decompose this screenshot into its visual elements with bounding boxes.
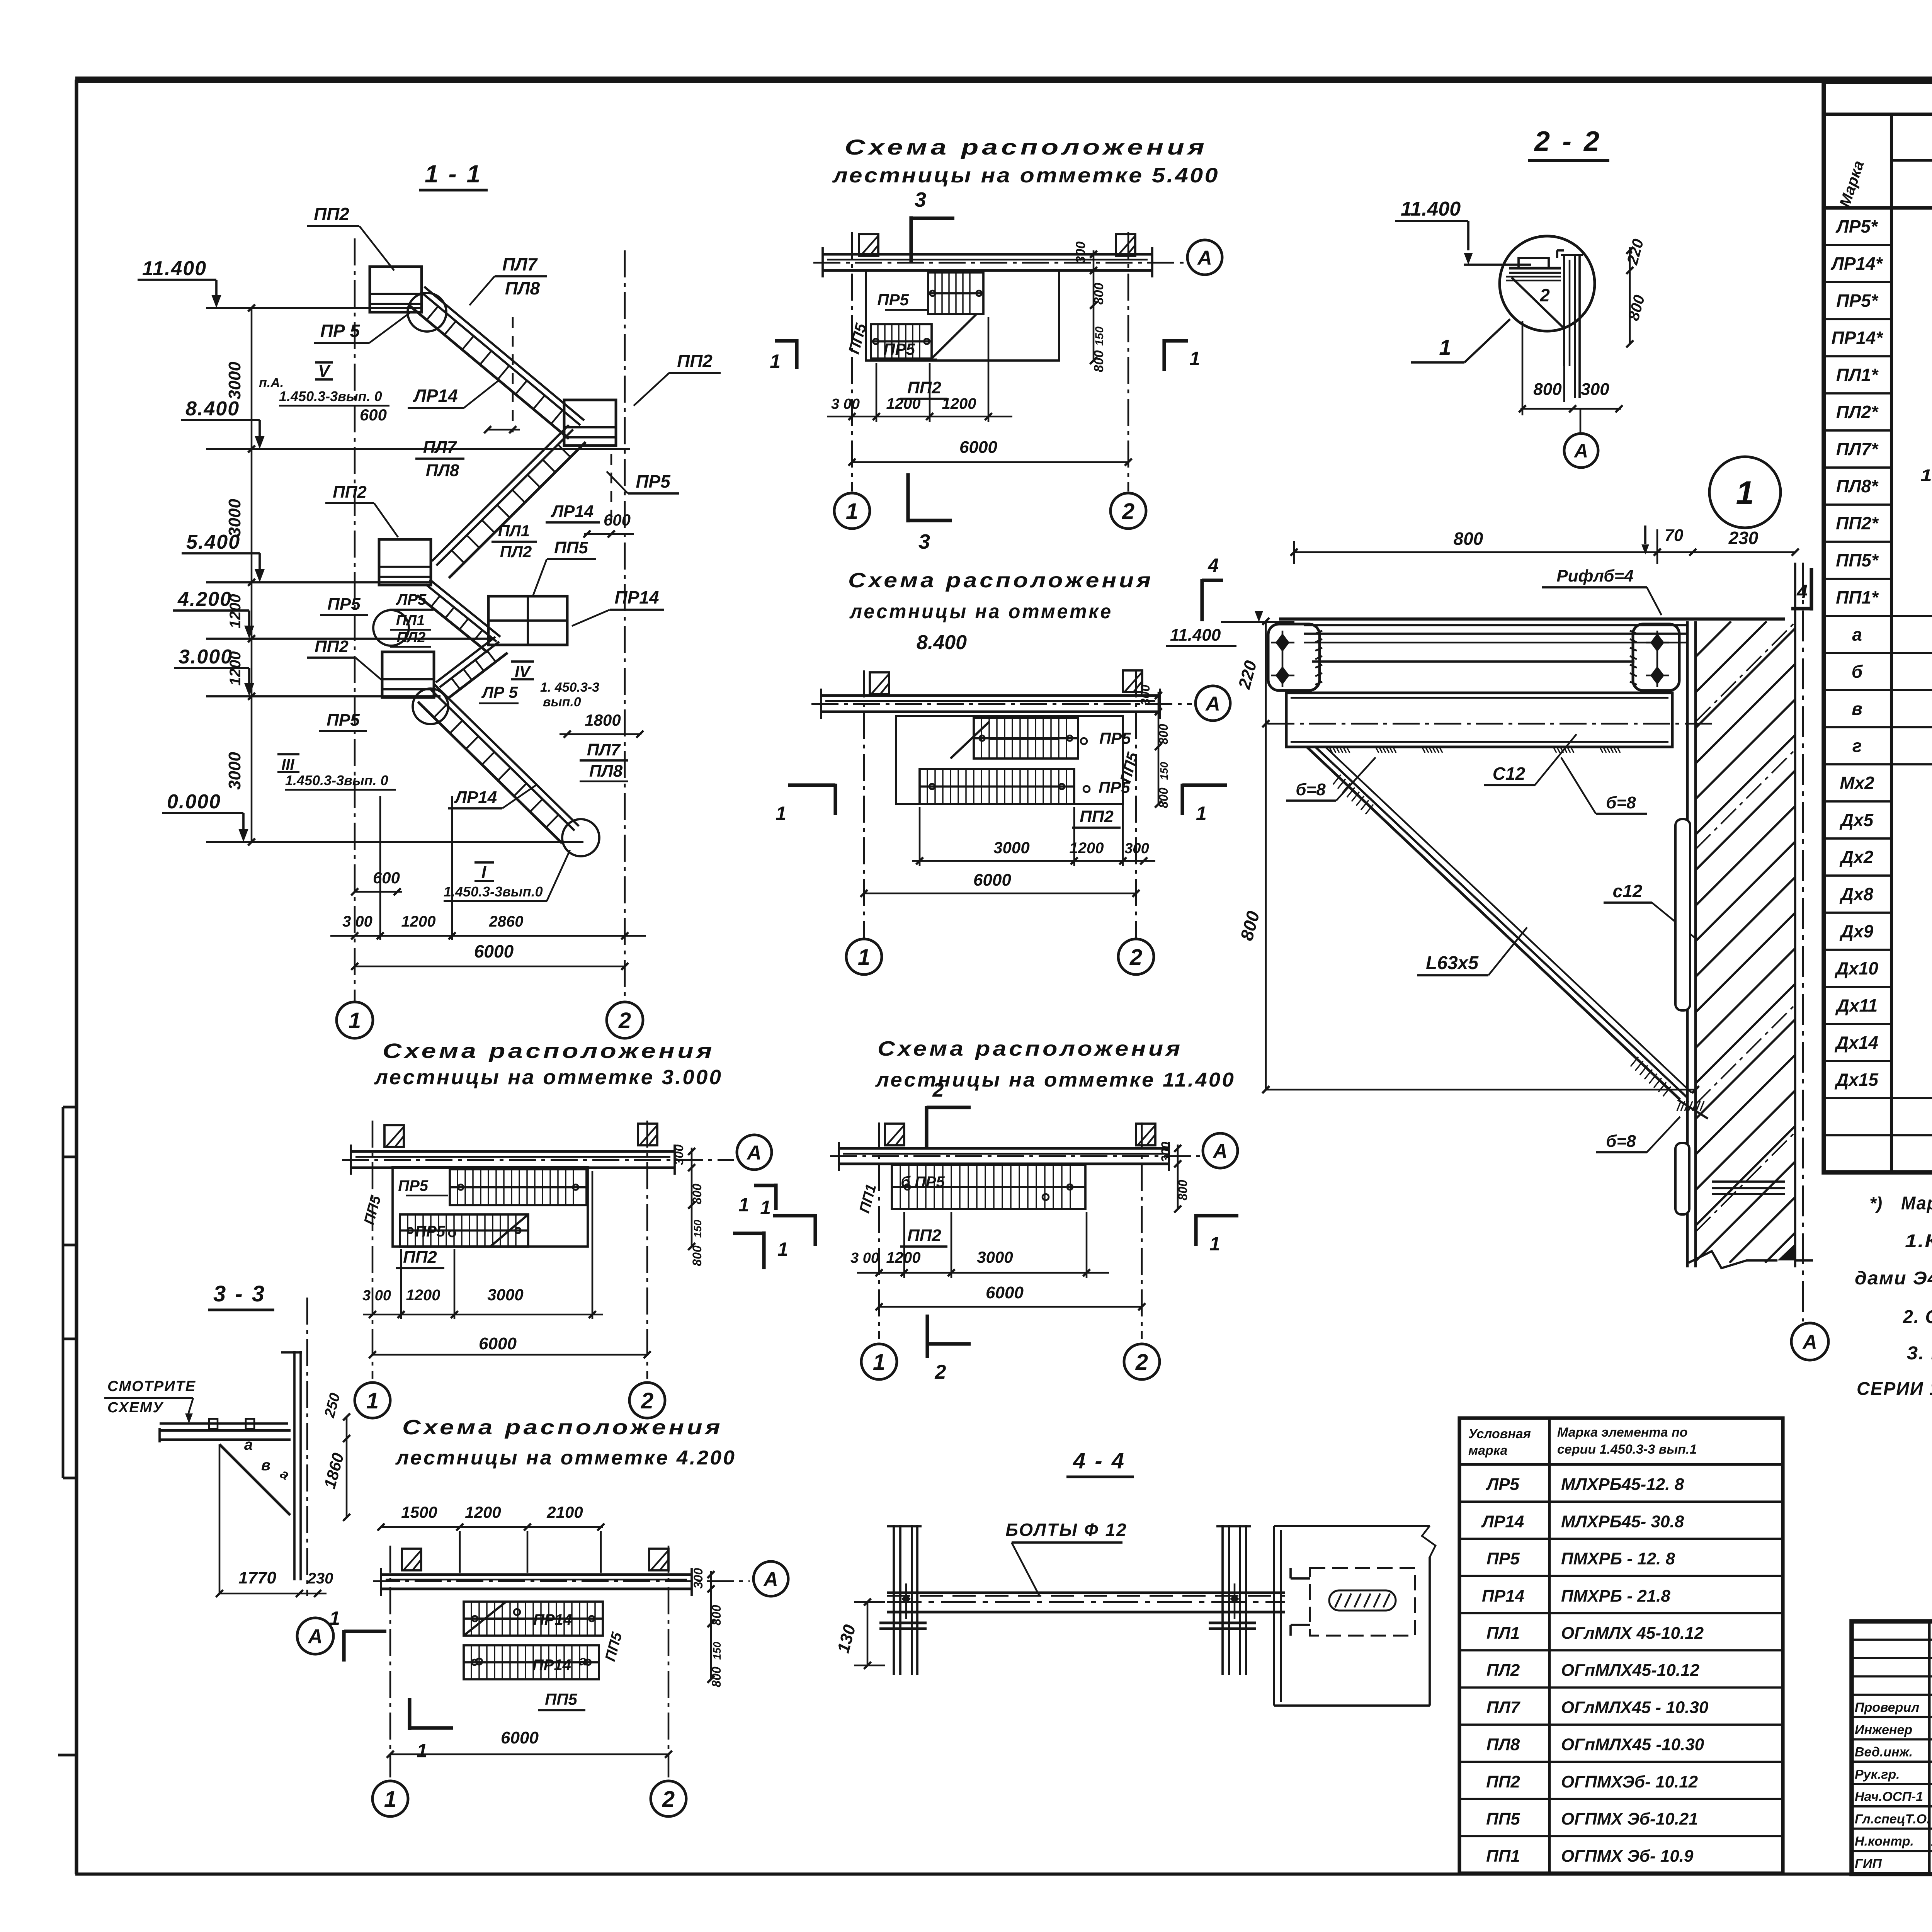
svg-text:ПЛ1: ПЛ1 xyxy=(1486,1624,1520,1643)
svg-text:800: 800 xyxy=(1092,350,1106,372)
detail 1 weld hatch upper strut xyxy=(1333,775,1341,784)
plan 4.200 hatched column 2 xyxy=(649,1549,668,1570)
detail 1 weld hatch lower strut xyxy=(1631,1057,1638,1066)
svg-text:1200: 1200 xyxy=(942,395,976,412)
svg-text:г: г xyxy=(1852,736,1862,756)
plan 5.400 axis A line and circle xyxy=(813,262,1184,264)
section 4-4 right bolt xyxy=(1230,1594,1239,1604)
svg-text:11.400: 11.400 xyxy=(142,257,207,280)
svg-text:3000: 3000 xyxy=(993,838,1029,857)
svg-text:Условная: Условная xyxy=(1468,1427,1531,1441)
svg-text:800: 800 xyxy=(1454,529,1483,549)
plan 11.400 axis circle 1 xyxy=(861,1344,897,1379)
plan 4.200 right rotated dims xyxy=(710,1571,712,1679)
svg-text:1200: 1200 xyxy=(227,594,244,629)
svg-text:в: в xyxy=(261,1457,270,1474)
svg-text:3000: 3000 xyxy=(225,752,244,790)
svg-text:ПР5: ПР5 xyxy=(1486,1549,1520,1568)
svg-text:Проверил: Проверил xyxy=(1855,1700,1919,1715)
svg-text:3. Крепление ограждений выпо: 3. Крепление ограждений выполнить по узл… xyxy=(1907,1343,1932,1364)
svg-text:ПР14: ПР14 xyxy=(532,1656,571,1673)
plan 11.400 section mark 1 right xyxy=(1194,1214,1197,1246)
joint circle at 5.400 landing xyxy=(373,610,409,646)
svg-text:лестницы на отметке 11.400: лестницы на отметке 11.400 xyxy=(875,1069,1235,1091)
svg-text:ПП2: ПП2 xyxy=(314,204,349,224)
plan 5.400 column axis 1 xyxy=(851,232,853,492)
svg-text:1.450.3-3вып. 0: 1.450.3-3вып. 0 xyxy=(285,772,388,788)
svg-text:150: 150 xyxy=(1093,327,1106,346)
legend table rows xyxy=(1459,1500,1783,1503)
svg-text:1.450.3-3вып. 0: 1.450.3-3вып. 0 xyxy=(279,388,382,404)
svg-text:11.400: 11.400 xyxy=(1401,198,1461,220)
svg-text:6000: 6000 xyxy=(479,1334,517,1353)
svg-text:1: 1 xyxy=(858,945,870,970)
svg-text:ОГПМХ Эб- 10.9: ОГПМХ Эб- 10.9 xyxy=(1561,1847,1694,1866)
svg-text:ЛР14: ЛР14 xyxy=(1481,1512,1524,1531)
svg-text:ПР14: ПР14 xyxy=(533,1611,572,1628)
plan 3.000 hatched column 2 xyxy=(638,1124,657,1145)
svg-text:Инженер: Инженер xyxy=(1855,1723,1912,1737)
detail 1 left bolt plate xyxy=(1268,624,1320,690)
svg-text:ПП2: ПП2 xyxy=(333,483,367,502)
svg-text:Дх8: Дх8 xyxy=(1839,884,1874,904)
plan 5.400 hatched column 1 xyxy=(859,234,878,256)
svg-text:1.450.3-3вып.0: 1.450.3-3вып.0 xyxy=(444,884,543,900)
detail 1 wall dash-dot verticals xyxy=(1794,563,1796,1267)
svg-text:6000: 6000 xyxy=(501,1728,539,1747)
plan 8.400 ladder PR5 upper with diagonal xyxy=(974,718,1078,759)
svg-text:2: 2 xyxy=(1539,285,1550,305)
plan 8.400 column axis 2 xyxy=(1135,670,1137,938)
svg-text:ПР14*: ПР14* xyxy=(1832,328,1884,348)
plan 11.400 beam along axis A xyxy=(839,1147,1169,1150)
svg-text:Нач.ОСП-1: Нач.ОСП-1 xyxy=(1855,1789,1923,1804)
svg-text:Дх9: Дх9 xyxy=(1839,921,1874,941)
level line 8.400 xyxy=(206,448,630,450)
svg-text:6000: 6000 xyxy=(973,871,1011,889)
title block name columns xyxy=(1928,1621,1931,1874)
plan 3.000 section mark 1 right upper xyxy=(774,1184,777,1210)
section 4-4 left base plate xyxy=(879,1622,927,1624)
svg-text:ОГПМХЭб- 10.12: ОГПМХЭб- 10.12 xyxy=(1561,1772,1698,1791)
svg-text:3000: 3000 xyxy=(487,1286,523,1304)
plan 11.400 column axis 1 xyxy=(878,1122,880,1339)
plan 5.400 section mark 3 top xyxy=(909,216,913,263)
axis circle 2 (1-1) xyxy=(607,1002,643,1038)
section 4-4 connection plate dashed xyxy=(1310,1568,1415,1636)
svg-text:800: 800 xyxy=(709,1605,723,1626)
svg-text:ПЛ1: ПЛ1 xyxy=(498,522,530,540)
plan 8.400 axis A line and circle xyxy=(811,703,1192,705)
svg-text:ПП5: ПП5 xyxy=(1486,1810,1520,1828)
elements table header grid xyxy=(1824,206,1932,209)
section 3-3 level line xyxy=(160,1422,288,1425)
svg-text:ЛР14: ЛР14 xyxy=(551,502,594,521)
plan 3.000 dim extension lines xyxy=(400,1249,402,1319)
svg-text:I: I xyxy=(481,863,486,882)
svg-text:Марка элемента по: Марка элемента по xyxy=(1557,1425,1688,1440)
plan 3.000 ladder PR5 long upper xyxy=(450,1169,587,1205)
svg-text:ПР5: ПР5 xyxy=(877,291,909,309)
svg-text:ПЛ7: ПЛ7 xyxy=(587,740,621,759)
svg-text:2860: 2860 xyxy=(489,913,524,930)
svg-text:6000: 6000 xyxy=(959,438,997,457)
plan 5.400 ladder PR5 lower xyxy=(871,324,932,359)
detail 1 wall channel lower xyxy=(1675,1143,1689,1214)
svg-text:III: III xyxy=(281,756,294,773)
plan 3.000 right rotated dims xyxy=(691,1148,693,1247)
section 3-3 axis dash-dot xyxy=(306,1298,308,1596)
svg-text:ПЛ8: ПЛ8 xyxy=(426,461,459,480)
plan 8.400 dim extension lines xyxy=(919,807,921,866)
detail 1 channel axis dash-dot xyxy=(1267,723,1716,725)
svg-text:Мх2: Мх2 xyxy=(1840,773,1874,793)
svg-text:ЛР14: ЛР14 xyxy=(454,788,497,807)
svg-text:600: 600 xyxy=(373,869,400,887)
dashed guide line near 600 dim (1-1) xyxy=(512,317,514,432)
svg-text:ПП2: ПП2 xyxy=(677,351,713,371)
svg-text:а: а xyxy=(1852,624,1862,645)
svg-text:СЕРИИ 1.450.3-3 вып. 0: СЕРИИ 1.450.3-3 вып. 0 xyxy=(1857,1379,1932,1399)
svg-text:ПЛ2*: ПЛ2* xyxy=(1836,402,1879,422)
level line 3.000 xyxy=(206,695,440,697)
svg-text:Дх10: Дх10 xyxy=(1834,958,1878,978)
1-1 dim extension lines xyxy=(379,796,381,940)
detail 1 wall hatch xyxy=(1054,621,1932,1263)
svg-text:1200: 1200 xyxy=(401,913,436,930)
detail 1 section mark 4 left xyxy=(1200,579,1204,621)
landing PP5 at 4.200 (1-1) xyxy=(488,596,567,645)
detail 1 left dim 220 xyxy=(1265,621,1267,724)
svg-text:2: 2 xyxy=(932,1079,944,1101)
plan 11.400 dim extension lines xyxy=(903,1212,905,1278)
svg-text:800: 800 xyxy=(1156,787,1170,808)
svg-text:А: А xyxy=(1197,247,1212,269)
svg-text:ПЛ7: ПЛ7 xyxy=(502,254,538,274)
axis circle 1 (1-1) xyxy=(337,1002,373,1038)
plan 4.200 ladder PR14 lower xyxy=(464,1645,599,1679)
section 2-2 platform plank xyxy=(1519,258,1549,268)
title block name rows xyxy=(1852,1639,1932,1641)
svg-text:1.450. 3-3 вып. 1 часть 1,2: 1.450. 3-3 вып. 1 часть 1,2 xyxy=(1920,466,1932,485)
svg-text:ЛР14*: ЛР14* xyxy=(1830,253,1883,274)
plan 8.400 ladder PR5 lower xyxy=(920,769,1074,804)
svg-text:3 00: 3 00 xyxy=(362,1287,391,1304)
svg-text:с12: с12 xyxy=(1613,881,1643,901)
plan 11.400 section mark 2 bottom xyxy=(925,1315,929,1358)
detail callout circle 1 large xyxy=(1709,457,1781,528)
svg-text:1: 1 xyxy=(1196,803,1207,824)
svg-text:2: 2 xyxy=(618,1008,631,1033)
level line 4.200 xyxy=(206,638,491,640)
svg-text:марка: марка xyxy=(1468,1443,1507,1458)
section 4-4 beam xyxy=(887,1592,1285,1594)
section 2-2 platform edge lines xyxy=(1509,267,1561,270)
svg-text:150: 150 xyxy=(711,1641,723,1660)
svg-text:лестницы на отметке: лестницы на отметке xyxy=(849,600,1113,623)
svg-text:2 - 2: 2 - 2 xyxy=(1534,126,1602,157)
svg-text:ОГПМХ Эб-10.21: ОГПМХ Эб-10.21 xyxy=(1561,1810,1698,1828)
plan 4.200 axis circle 1 xyxy=(372,1781,408,1816)
section 2-2 axis line to circle A xyxy=(1580,409,1582,433)
svg-text:1: 1 xyxy=(760,1197,771,1218)
plan 5.400 beam along axis A xyxy=(823,253,1152,256)
svg-text:4: 4 xyxy=(1207,554,1219,576)
svg-text:2: 2 xyxy=(641,1388,653,1413)
svg-text:3000: 3000 xyxy=(225,362,244,400)
svg-text:б ПР5: б ПР5 xyxy=(901,1173,945,1190)
svg-text:300: 300 xyxy=(1073,241,1088,264)
svg-text:ПП5: ПП5 xyxy=(545,1690,577,1708)
svg-text:1: 1 xyxy=(366,1388,379,1413)
detail 1 beam PP1 at bottom xyxy=(1712,1180,1785,1183)
svg-text:ПП5: ПП5 xyxy=(554,538,588,557)
plan 4.200 axis circle 2 xyxy=(651,1781,686,1816)
svg-text:2100: 2100 xyxy=(546,1503,583,1521)
svg-text:ПР5*: ПР5* xyxy=(1836,291,1878,311)
svg-text:ГИП: ГИП xyxy=(1855,1856,1882,1871)
svg-text:L63х5: L63х5 xyxy=(1426,953,1479,973)
svg-text:3 00: 3 00 xyxy=(831,396,860,412)
svg-text:ОГпМЛХ45 -10.30: ОГпМЛХ45 -10.30 xyxy=(1561,1735,1704,1754)
svg-text:3000: 3000 xyxy=(977,1248,1013,1266)
section 2-2 bottom dim 800 300 xyxy=(1563,366,1565,402)
section 2-2 detail circle xyxy=(1500,236,1595,331)
plan 4.200 hatched column 1 xyxy=(402,1549,421,1570)
stair flight LR14 second (1-1) xyxy=(432,425,569,561)
detail 1 bottom dim line xyxy=(1266,1089,1696,1091)
svg-text:0.000: 0.000 xyxy=(167,791,221,813)
svg-text:2: 2 xyxy=(1135,1350,1148,1375)
legend table outer frame xyxy=(1459,1418,1783,1873)
svg-text:Схема расположения: Схема расположения xyxy=(848,569,1153,592)
svg-text:ПР5: ПР5 xyxy=(1099,729,1131,747)
plan 3.000 ladder PR5 lower with diagonal xyxy=(400,1214,528,1247)
plan 4.200 column axis 1 xyxy=(389,1546,391,1777)
section 2-2 level line xyxy=(1464,264,1531,266)
svg-text:Рифлб=4: Рифлб=4 xyxy=(1556,566,1633,585)
svg-text:ЛР5: ЛР5 xyxy=(396,591,427,608)
svg-text:ПП2*: ПП2* xyxy=(1836,513,1879,533)
svg-text:ПП2: ПП2 xyxy=(315,637,349,656)
title block role rows xyxy=(1852,1694,1932,1696)
section 4-4 right base plate xyxy=(1209,1622,1256,1624)
svg-text:1: 1 xyxy=(777,1238,788,1260)
plan 5.400 section mark 1 left xyxy=(795,339,798,369)
section 2-2 leader 1 xyxy=(1464,319,1510,362)
svg-text:ПЛ1: ПЛ1 xyxy=(396,612,425,629)
joint circle at 11.400 landing xyxy=(408,293,446,332)
svg-text:6000: 6000 xyxy=(986,1283,1024,1302)
detail 1 section mark 4 top xyxy=(1810,568,1813,611)
svg-text:1200: 1200 xyxy=(1070,840,1104,857)
landing PP2 at 5.400 (1-1) xyxy=(379,539,431,585)
svg-text:800: 800 xyxy=(1092,283,1106,305)
section 2-2 small angle top xyxy=(1557,249,1564,252)
landing PP2 at 3.000 (1-1) xyxy=(382,652,434,697)
svg-text:А: А xyxy=(1205,693,1220,715)
svg-text:Вед.инж.: Вед.инж. xyxy=(1855,1745,1913,1760)
plan 8.400 column axis 1 xyxy=(863,670,865,938)
svg-text:ПЛ8: ПЛ8 xyxy=(505,278,540,298)
section 4-4 left post xyxy=(893,1525,895,1675)
svg-text:150: 150 xyxy=(692,1219,704,1238)
plan 4.200 section mark 1 left xyxy=(342,1630,345,1662)
stair flight LR14 upper (1-1) xyxy=(424,287,584,420)
svg-text:*): *) xyxy=(1869,1193,1882,1213)
svg-text:ПР 5: ПР 5 xyxy=(320,321,361,341)
plan 4.200 section mark 1 bottom xyxy=(408,1698,411,1730)
plan 11.400 section mark 2 top xyxy=(925,1106,928,1150)
svg-text:ПП2: ПП2 xyxy=(907,378,941,397)
svg-text:б: б xyxy=(1852,662,1863,682)
svg-text:800: 800 xyxy=(1156,724,1170,745)
svg-text:1: 1 xyxy=(1736,474,1754,511)
svg-text:1200: 1200 xyxy=(406,1287,440,1304)
section 3-3 circle A xyxy=(297,1618,333,1654)
section 4-4 dim 130 xyxy=(867,1602,869,1665)
svg-text:ПР5: ПР5 xyxy=(398,1177,428,1194)
svg-text:230: 230 xyxy=(307,1570,333,1587)
plan 8.400 section mark 1 right xyxy=(1180,784,1184,815)
dashed guide right (1-1) xyxy=(611,454,612,526)
svg-text:Дх11: Дх11 xyxy=(1835,995,1878,1015)
stair flight LR5 upper short (1-1) xyxy=(430,580,500,637)
detail 1 axis to circle A xyxy=(1791,1323,1828,1360)
svg-text:лестницы на отметке 3.000: лестницы на отметке 3.000 xyxy=(374,1066,723,1089)
svg-text:1: 1 xyxy=(1189,348,1200,369)
plan 8.400 right rotated dims xyxy=(1158,692,1160,804)
svg-text:2: 2 xyxy=(1129,945,1142,970)
detail 1 wall break bottom xyxy=(1689,1251,1777,1268)
plan 11.400 ladder PR5 long xyxy=(892,1165,1085,1209)
svg-text:4: 4 xyxy=(1796,581,1808,602)
svg-text:3.000: 3.000 xyxy=(179,646,233,668)
plan 5.400 right rotated dims xyxy=(1093,250,1095,361)
plan 4.200 axis A line and circle xyxy=(373,1580,750,1582)
detail 1 wall channel C12 vertical upper xyxy=(1675,819,1690,1010)
section 2-2 diagonal weld leader xyxy=(1512,277,1565,329)
svg-text:300: 300 xyxy=(1124,840,1149,857)
plan 8.400 stair outline xyxy=(896,716,1123,804)
plan 3.000 beam along axis A xyxy=(351,1150,675,1153)
svg-text:1200: 1200 xyxy=(886,395,921,412)
svg-text:300: 300 xyxy=(1159,1142,1173,1163)
section 3-3 top tabs xyxy=(209,1419,218,1429)
plan 5.400 hatched column 2 xyxy=(1116,234,1135,256)
svg-text:70: 70 xyxy=(1665,526,1684,545)
legend table header xyxy=(1459,1463,1783,1466)
plan 11.400 hatched column 2 xyxy=(1136,1124,1155,1145)
section 2-2 right dims 220 800 xyxy=(1629,247,1631,344)
plan 11.400 axis circle 2 xyxy=(1124,1344,1160,1379)
detail 1 strut base weld bottom xyxy=(1677,1101,1681,1111)
plan 5.400 section mark 1 right xyxy=(1162,339,1166,371)
svg-text:ПЛ2: ПЛ2 xyxy=(500,543,532,561)
svg-text:ПР5: ПР5 xyxy=(327,595,361,614)
svg-text:СМОТРИТЕ: СМОТРИТЕ xyxy=(107,1378,196,1395)
svg-text:лестницы на отметке 5.400: лестницы на отметке 5.400 xyxy=(832,164,1219,187)
svg-text:ЛР14: ЛР14 xyxy=(413,386,457,406)
section 4-4 slot capsule xyxy=(1329,1590,1396,1611)
svg-text:а: а xyxy=(244,1436,253,1453)
page border frame xyxy=(75,77,1932,83)
level line 0.000 xyxy=(206,841,583,843)
joint circle at flight bottom xyxy=(562,819,599,856)
svg-text:1. 450.3-3: 1. 450.3-3 xyxy=(540,680,599,695)
svg-text:800: 800 xyxy=(690,1184,704,1204)
svg-text:ПЛ7: ПЛ7 xyxy=(1486,1698,1521,1717)
svg-text:ПП5*: ПП5* xyxy=(1836,550,1879,570)
section 3-3 vertical channel xyxy=(293,1351,296,1580)
plan 8.400 hatched column 2 xyxy=(1123,670,1142,692)
plan 11.400 hatched column 1 xyxy=(885,1124,904,1145)
svg-text:ПП2: ПП2 xyxy=(907,1226,941,1245)
plan 8.400 axis circle 2 xyxy=(1118,939,1154,975)
svg-text:1: 1 xyxy=(384,1787,396,1812)
stair flight LR5 lower short (1-1) xyxy=(436,637,495,682)
section 4-4 left bolt xyxy=(901,1594,911,1604)
svg-text:Схема расположения: Схема расположения xyxy=(383,1039,715,1063)
svg-text:ПЛ7*: ПЛ7* xyxy=(1836,439,1879,459)
svg-text:ПЛ1*: ПЛ1* xyxy=(1836,365,1879,385)
svg-text:300: 300 xyxy=(672,1145,686,1165)
svg-text:А: А xyxy=(1802,1331,1817,1354)
svg-text:ПЛ8: ПЛ8 xyxy=(1486,1735,1520,1754)
plan 3.000 stair outline xyxy=(393,1167,588,1247)
landing PP2 at 8.400 (1-1) xyxy=(564,400,616,446)
detail 1 diagonal strut L63x5 xyxy=(1307,747,1680,1100)
section 4-4 wall block xyxy=(1273,1526,1275,1706)
svg-text:Гл.спецТ.О.: Гл.спецТ.О. xyxy=(1855,1812,1930,1827)
svg-text:ОГлМЛХ45 - 10.30: ОГлМЛХ45 - 10.30 xyxy=(1561,1698,1709,1717)
svg-text:б=8: б=8 xyxy=(1606,793,1636,812)
plan 5.400 axis circle 1 xyxy=(834,493,870,529)
svg-text:Схема расположения: Схема расположения xyxy=(878,1037,1183,1060)
svg-text:800: 800 xyxy=(1533,380,1562,399)
svg-text:ОГлМЛХ 45-10.12: ОГлМЛХ 45-10.12 xyxy=(1561,1624,1704,1643)
svg-text:А: А xyxy=(1212,1140,1228,1163)
svg-text:1200: 1200 xyxy=(465,1503,501,1521)
svg-text:3 00: 3 00 xyxy=(850,1250,879,1266)
svg-text:А: А xyxy=(1573,440,1588,462)
svg-text:С12: С12 xyxy=(1493,764,1526,784)
plan 3.000 column axis 2 xyxy=(646,1121,648,1379)
svg-text:ПЛ7: ПЛ7 xyxy=(423,438,457,457)
plan 11.400 axis A line and circle xyxy=(830,1155,1200,1157)
svg-text:ПР14: ПР14 xyxy=(1482,1587,1524,1605)
section 3-3 bracket horizontal member xyxy=(160,1429,291,1432)
column axis 2 (1-1) xyxy=(624,250,626,1002)
detail 1 weld ticks on channel xyxy=(1329,747,1332,753)
section 2-2 vertical channel xyxy=(1563,255,1565,366)
plan 5.400 axis circle 2 xyxy=(1111,493,1146,529)
svg-text:1: 1 xyxy=(1439,335,1451,359)
svg-text:8.400: 8.400 xyxy=(185,398,240,420)
svg-text:ПЛ2: ПЛ2 xyxy=(397,629,426,646)
plan 4.200 ladder PR14 upper with diagonal xyxy=(464,1602,603,1636)
svg-text:А: А xyxy=(307,1626,323,1648)
svg-text:ПР5: ПР5 xyxy=(883,340,915,358)
column axis 1 (1-1) xyxy=(354,238,356,1002)
svg-text:3000: 3000 xyxy=(225,499,244,537)
plan 11.400 column axis 2 xyxy=(1141,1122,1143,1339)
stair flight LR14 bottom (1-1) xyxy=(435,685,579,826)
svg-text:ЛР5*: ЛР5* xyxy=(1835,216,1878,236)
plan 3.000 section mark 1 right lower xyxy=(762,1231,765,1269)
svg-text:1.Конструкции сварные. Сварку: 1.Конструкции сварные. Сварку производит… xyxy=(1905,1231,1932,1252)
svg-text:6000: 6000 xyxy=(474,941,514,961)
